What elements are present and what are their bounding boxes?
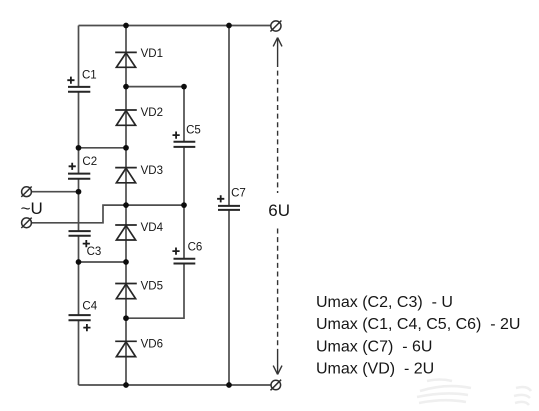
dimension arrow 6U (top arrowhead)	[273, 38, 282, 47]
node C1-C2	[76, 145, 82, 151]
wire C7 column	[228, 26, 230, 386]
node VD4-VD5	[123, 259, 129, 265]
wire node VD2-VD3 to C1-C2 node	[79, 147, 127, 149]
node upper input	[76, 189, 82, 195]
svg-text:~U: ~U	[21, 199, 43, 218]
svg-text:VD1: VD1	[141, 48, 163, 60]
wire C6 column with elbow to node VD5-VD6	[126, 205, 184, 318]
dimension arrow 6U (shaft, dashed)	[277, 38, 279, 62]
diode VD6	[115, 339, 163, 357]
wire bottom bus	[79, 384, 272, 386]
node VD2-VD3	[123, 145, 129, 151]
wire node VD4-VD5 to C3-C4 node	[79, 261, 127, 263]
wire C5 column	[183, 87, 185, 206]
wire upper input terminal to node	[31, 191, 78, 193]
wire node VD1-VD2 to C5 top	[126, 86, 184, 88]
diode VD5	[115, 281, 163, 299]
input terminal upper	[21, 187, 31, 197]
node VD5-VD6	[123, 315, 129, 321]
node VD3-VD4	[123, 202, 129, 208]
svg-text:VD6: VD6	[141, 339, 163, 351]
wire lower input terminal stepped to node VD3-VD4	[31, 205, 126, 223]
capacitor C2	[68, 156, 97, 179]
dimension arrow 6U (bottom arrowhead)	[273, 366, 282, 375]
input terminal lower	[21, 218, 31, 228]
node VD1-VD2	[123, 84, 129, 90]
svg-text:VD2: VD2	[141, 107, 163, 119]
diode VD1	[115, 48, 163, 67]
node bottom bus / diode column	[123, 382, 129, 388]
node top bus / C7 column	[226, 23, 232, 29]
svg-text:C1: C1	[82, 70, 97, 82]
faint watermark bottom right (decorative)	[417, 380, 531, 406]
wire diode column	[125, 26, 127, 386]
svg-text:C3: C3	[87, 246, 102, 258]
node C5-C6	[181, 202, 187, 208]
capacitor C5	[173, 125, 201, 147]
svg-text:6U: 6U	[268, 201, 290, 220]
node bottom bus / C7 column	[226, 382, 232, 388]
svg-text:C6: C6	[188, 242, 203, 254]
svg-text:VD4: VD4	[141, 222, 164, 234]
capacitor C6	[172, 242, 202, 264]
svg-text:VD5: VD5	[141, 281, 163, 293]
wire left capacitor column	[78, 26, 80, 386]
output terminal top	[270, 21, 281, 32]
diode VD3	[115, 165, 163, 183]
output terminal bottom	[271, 380, 282, 391]
node top bus / diode column	[123, 23, 129, 29]
svg-text:VD3: VD3	[141, 165, 163, 177]
svg-text:C4: C4	[82, 301, 97, 313]
svg-text:C5: C5	[186, 125, 201, 137]
svg-text:Umax (C7) - 6U: Umax (C7) - 6U	[316, 338, 432, 355]
svg-text:C2: C2	[82, 156, 97, 168]
diode VD2	[115, 107, 163, 125]
wire node VD3-VD4 to C6 top	[126, 204, 184, 206]
diode VD4	[115, 222, 163, 240]
capacitor C7	[217, 188, 246, 210]
capacitor C1	[67, 70, 96, 92]
svg-text:Umax (VD) - 2U: Umax (VD) - 2U	[316, 361, 434, 378]
svg-text:Umax (C1, C4, C5, C6) - 2U: Umax (C1, C4, C5, C6) - 2U	[316, 316, 520, 333]
svg-text:Umax (C2, C3) - U: Umax (C2, C3) - U	[316, 294, 453, 311]
capacitor C3	[69, 231, 102, 258]
svg-text:C7: C7	[231, 188, 246, 200]
capacitor C4	[69, 301, 98, 332]
node C3-C4	[76, 259, 82, 265]
wire top bus	[79, 25, 271, 27]
node C5 top	[181, 84, 187, 90]
